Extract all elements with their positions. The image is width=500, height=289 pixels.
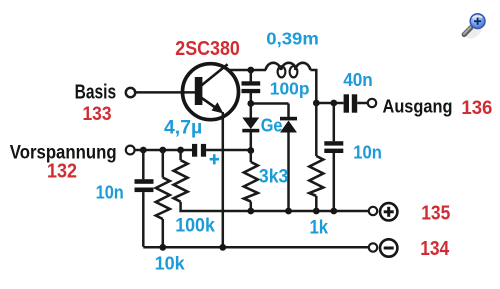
node 10k/neg rail [159,244,166,251]
wire negative rail [143,246,369,249]
resistor R4 1k [309,103,323,211]
capacitor C3 10n (right) [324,103,343,211]
terminal Ausgang [368,99,376,107]
terminal minus small [369,243,377,251]
node output/1k [313,100,320,107]
svg-text:132: 132 [47,161,77,183]
node diode top [247,100,254,107]
svg-text:135: 135 [421,203,450,225]
svg-text:134: 134 [420,238,449,260]
diode D2 Ge (right, cathode up) [280,104,297,212]
svg-text:3k3: 3k3 [259,167,288,188]
node 100k tap [177,147,184,154]
node 10n/rail [330,208,337,215]
terminal plus small [369,207,377,215]
diode D1 Ge (left, anode up) [242,104,259,151]
svg-text:10n: 10n [96,182,124,203]
symbol plus [380,203,397,220]
wire Basis lead [135,91,196,94]
svg-text:10k: 10k [155,253,186,274]
symbol minus [380,239,397,256]
resistor R2 10k [156,150,170,247]
svg-text:4,7µ: 4,7µ [164,117,202,138]
svg-text:10n: 10n [353,142,382,163]
icon magnifier [464,14,485,42]
capacitor C2 40n [344,94,368,112]
inductor L1 0,39m [266,63,311,78]
node emitter/neg rail [219,244,226,251]
svg-text:0,39m: 0,39m [266,28,319,48]
node collector/top [247,67,254,74]
node diode/3k3 [247,147,254,154]
node 3k3/rail [247,208,254,215]
capacitor C5 10n (left) [135,150,154,247]
wire collector to top rail [227,69,267,72]
node output/10n [330,100,337,107]
resistor R1 3k3 [244,151,258,212]
wire emitter down [222,112,225,247]
node 10n tap [140,147,147,154]
svg-text:2SC380: 2SC380 [175,38,240,60]
svg-text:133: 133 [83,103,112,125]
svg-text:Ge: Ge [261,114,283,135]
svg-text:Basis: Basis [75,82,117,104]
svg-text:100k: 100k [175,215,215,237]
svg-text:100p: 100p [270,79,310,99]
transistor Q1 2SC380 [183,64,239,120]
terminal Basis [126,88,135,97]
node diode/rail [285,208,292,215]
svg-text:136: 136 [461,98,492,119]
node 1k/rail [313,208,320,215]
wire Vorspannung lead [135,149,193,152]
wire inductor to output node [311,70,317,103]
resistor R3 100k [174,150,251,211]
wire positive rail [251,210,369,213]
wire output line [316,102,343,105]
terminal Vorspannung [126,146,135,155]
node 10k tap [159,147,166,154]
label plus polarity [210,154,219,164]
capacitor C4 4,7µ [192,144,251,157]
svg-text:1k: 1k [310,218,329,239]
wire diode top link [251,102,289,105]
capacitor C1 100p [242,70,261,104]
svg-text:40n: 40n [343,70,373,90]
svg-text:Ausgang: Ausgang [383,97,453,117]
